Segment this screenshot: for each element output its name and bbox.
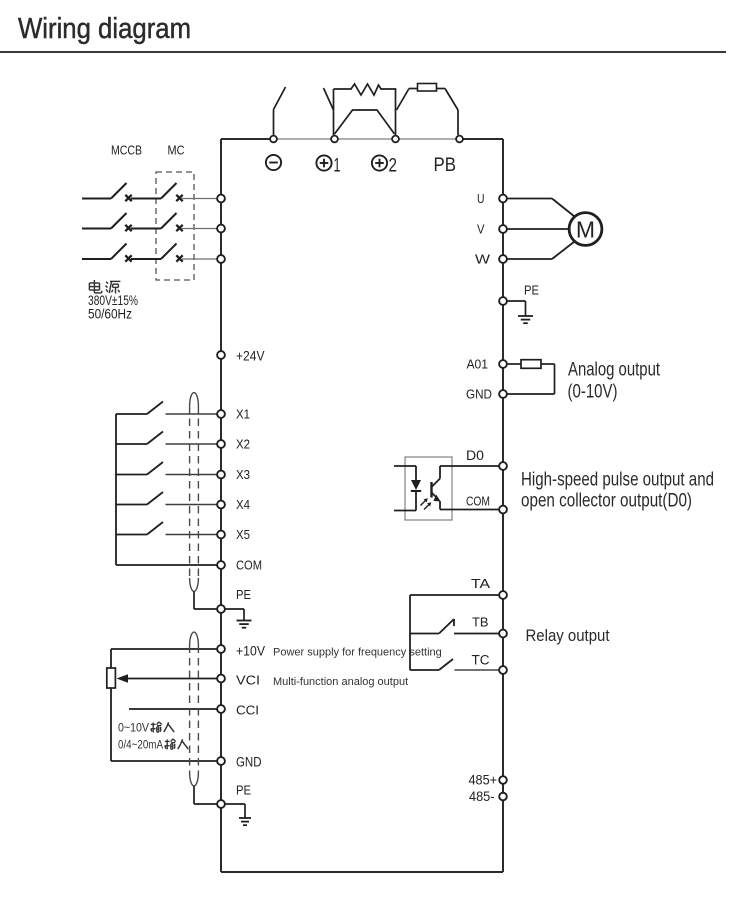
svg-text:+24V: +24V <box>236 348 265 363</box>
svg-text:TB: TB <box>472 615 489 630</box>
svg-text:X3: X3 <box>236 467 250 482</box>
svg-text:2: 2 <box>389 156 398 177</box>
svg-text:High-speed pulse output and: High-speed pulse output and <box>521 470 714 491</box>
svg-text:COM: COM <box>466 494 490 508</box>
svg-text:open collector output(D0): open collector output(D0) <box>521 491 692 512</box>
svg-text:0/4~20mA: 0/4~20mA <box>118 740 163 752</box>
svg-text:GND: GND <box>236 754 262 769</box>
svg-text:0~10V: 0~10V <box>118 723 149 735</box>
svg-text:PE: PE <box>236 783 251 798</box>
svg-text:PB: PB <box>434 155 457 176</box>
svg-text:PE: PE <box>236 587 251 602</box>
svg-text:Analog output: Analog output <box>568 360 661 381</box>
svg-text:485+: 485+ <box>469 772 498 788</box>
svg-text:1: 1 <box>334 156 341 177</box>
svg-text:X2: X2 <box>236 437 250 452</box>
svg-text:MCCB: MCCB <box>111 143 142 157</box>
svg-text:MC: MC <box>168 143 185 157</box>
svg-text:Power supply for frequency set: Power supply for frequency setting <box>273 646 442 658</box>
svg-text:Multi-function analog output: Multi-function analog output <box>273 676 408 688</box>
svg-text:Wiring diagram: Wiring diagram <box>18 13 191 45</box>
svg-text:PE: PE <box>524 283 539 298</box>
svg-text:A01: A01 <box>467 357 489 372</box>
svg-text:COM: COM <box>236 558 262 572</box>
svg-text:CCI: CCI <box>236 703 259 718</box>
svg-text:M: M <box>576 217 595 243</box>
svg-text:V: V <box>477 222 485 236</box>
svg-text:Relay output: Relay output <box>526 627 610 645</box>
svg-text:X1: X1 <box>236 407 250 422</box>
svg-text:485-: 485- <box>469 788 495 804</box>
svg-text:(0-10V): (0-10V) <box>568 382 618 403</box>
svg-text:W: W <box>475 252 491 267</box>
svg-text:GND: GND <box>466 387 492 402</box>
svg-text:TC: TC <box>472 652 490 667</box>
svg-text:U: U <box>477 192 485 206</box>
svg-text:D0: D0 <box>466 448 484 463</box>
svg-text:X4: X4 <box>236 497 250 512</box>
svg-text:TA: TA <box>471 576 490 591</box>
svg-text:X5: X5 <box>236 527 250 542</box>
svg-text:VCI: VCI <box>236 673 260 688</box>
svg-text:+10V: +10V <box>236 643 265 658</box>
svg-text:50/60Hz: 50/60Hz <box>88 307 132 322</box>
